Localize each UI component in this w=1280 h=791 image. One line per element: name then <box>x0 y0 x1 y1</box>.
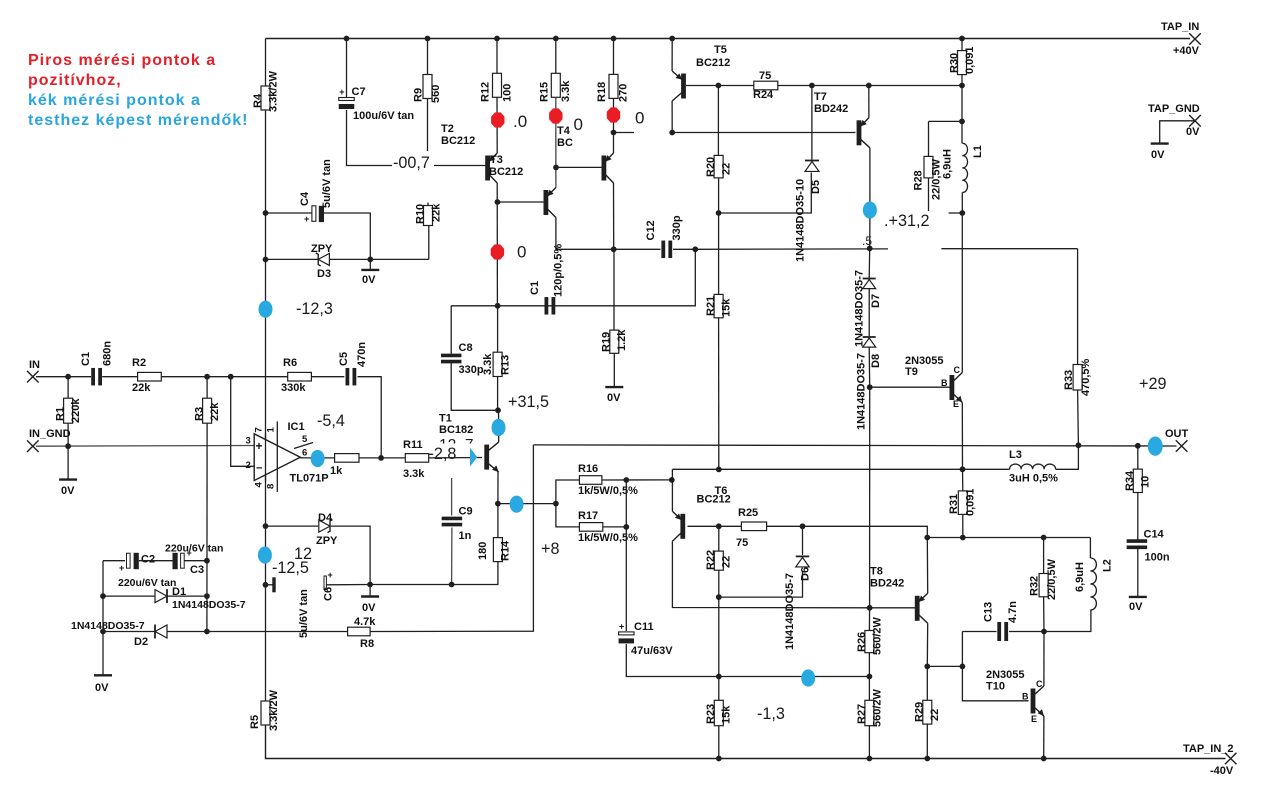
node D4 junction <box>263 523 269 529</box>
wire IN row <box>36 376 91 378</box>
resistor 1k <box>330 454 359 477</box>
wire R12 top <box>496 39 498 74</box>
svg-text:T1: T1 <box>439 413 452 425</box>
wire C13 to junction <box>1009 631 1044 633</box>
svg-text:BC212: BC212 <box>441 135 475 147</box>
svg-text:-2,8: -2,8 <box>429 445 457 463</box>
svg-text:C3: C3 <box>190 564 204 576</box>
capacitor C14 <box>1127 529 1170 564</box>
resistor R34 <box>1124 469 1152 492</box>
wire R31 top link <box>962 469 964 491</box>
resistor R10 <box>415 203 443 226</box>
node T9 base junction <box>867 384 873 390</box>
svg-text:C1: C1 <box>529 281 541 295</box>
svg-text:D8: D8 <box>870 354 882 368</box>
node R21 bottom junction <box>716 467 722 473</box>
svg-text:BC212: BC212 <box>697 494 731 506</box>
svg-text:C5: C5 <box>338 352 350 366</box>
svg-text:6,9uH: 6,9uH <box>942 149 954 179</box>
measure blue point opamp out <box>311 450 325 467</box>
ground D3 0V <box>361 270 379 286</box>
wire R21 bottom <box>718 318 720 470</box>
svg-text:1k/5W/0,5%: 1k/5W/0,5% <box>578 485 638 497</box>
measure blue point -12,3 <box>259 301 273 318</box>
transistor T9 2N3055 (NPN) <box>905 355 962 409</box>
op-amp IC1 TL071P <box>246 421 329 484</box>
svg-text:220u/6V tan: 220u/6V tan <box>118 577 176 589</box>
svg-text:D4: D4 <box>318 512 333 524</box>
wire R14 top link <box>497 504 499 538</box>
wire R6 to C5 <box>311 376 344 378</box>
svg-text:R32: R32 <box>1029 576 1041 596</box>
wire T3 collector down <box>496 183 498 306</box>
node C6 gnd junction <box>367 582 373 588</box>
svg-text:T7: T7 <box>814 91 827 103</box>
svg-text:10: 10 <box>1140 476 1152 488</box>
wire D1 row <box>103 595 207 597</box>
svg-text:3.3k/2W: 3.3k/2W <box>268 689 280 731</box>
wire D2 row <box>103 631 348 633</box>
diode D5 <box>795 161 823 263</box>
svg-text:E: E <box>1031 714 1037 724</box>
wire 537 row <box>927 537 1090 539</box>
svg-text:C1: C1 <box>80 352 92 366</box>
svg-text:+: + <box>619 621 624 631</box>
terminal IN_GND <box>27 428 71 452</box>
svg-text:+: + <box>119 563 124 573</box>
svg-text:IC1: IC1 <box>288 421 305 433</box>
svg-text:75: 75 <box>759 70 771 82</box>
wire R12 to T3 emitter <box>496 97 498 153</box>
wire bottom -40V rail <box>266 725 1226 759</box>
wire R30 top <box>961 39 963 51</box>
wire R19 bottom <box>613 353 615 387</box>
svg-text:C7: C7 <box>352 86 366 98</box>
svg-text:BC: BC <box>557 137 573 149</box>
wire C2-C3 link <box>139 560 173 562</box>
diode D3 ZPY <box>311 243 333 280</box>
wire D7 link top <box>868 248 871 277</box>
svg-text:+40V: +40V <box>1173 45 1200 57</box>
svg-text:+: + <box>304 214 309 224</box>
node R17 bracket junction <box>623 524 629 530</box>
svg-text:T4: T4 <box>557 125 571 137</box>
label voltage +8 <box>541 540 559 558</box>
diode D8 <box>856 337 883 430</box>
wire T2 collector to C12 row <box>556 218 614 250</box>
svg-text:1.2k: 1.2k <box>616 329 628 351</box>
label voltage 0 near T4 <box>574 115 583 134</box>
svg-text:15k: 15k <box>721 705 733 724</box>
svg-text:R26: R26 <box>856 632 868 652</box>
svg-text:3.3k: 3.3k <box>560 80 572 102</box>
resistor R1 <box>55 398 83 424</box>
svg-text:C12: C12 <box>645 220 657 240</box>
svg-text:R19: R19 <box>601 332 613 352</box>
svg-text:C: C <box>954 365 961 375</box>
capacitor C3 <box>165 543 223 577</box>
svg-text:220k: 220k <box>70 398 82 423</box>
resistor R32 <box>1029 558 1059 600</box>
svg-text:T9: T9 <box>905 366 918 378</box>
svg-text:D5: D5 <box>810 180 822 194</box>
capacitor C5 <box>338 342 368 386</box>
wire C4 left <box>266 212 312 214</box>
wire R28 bottom <box>929 178 966 216</box>
wire stub right of R18 <box>614 132 635 134</box>
ground C6 0V <box>361 597 379 615</box>
resistor R31 <box>948 488 977 516</box>
wire T8 collector row <box>927 665 962 667</box>
wire R1 to ground <box>67 446 69 479</box>
wire bracket to C11 <box>625 480 627 631</box>
svg-text:C9: C9 <box>459 506 473 518</box>
svg-text:TAP_GND: TAP_GND <box>1148 103 1200 115</box>
wire D6 top link <box>802 526 804 555</box>
wire C2 left vertical <box>102 561 104 676</box>
ground IN 0V <box>59 480 77 497</box>
wire D3 gnd stub <box>369 259 371 270</box>
wire R8 to x533 <box>370 445 533 632</box>
wire R15 to T2 emitter <box>555 97 557 187</box>
wire C12 to junction <box>673 248 695 250</box>
svg-text:470n: 470n <box>356 342 368 367</box>
label voltage -12,3 <box>296 300 333 318</box>
svg-text:1k/5W/0,5%: 1k/5W/0,5% <box>578 532 638 544</box>
wire C11 bottom <box>626 644 719 676</box>
wire T6 collector down <box>672 541 869 608</box>
wire T1 emitter down <box>497 472 499 504</box>
svg-text:−: − <box>256 463 262 475</box>
wire R32 top link <box>1043 538 1045 574</box>
node C4 junction <box>263 210 269 216</box>
capacitor C12 <box>645 215 683 258</box>
wire R13 bottom <box>497 377 499 411</box>
svg-text:B: B <box>941 378 948 388</box>
label voltage .0 <box>513 112 527 131</box>
svg-text:.5: .5 <box>862 234 872 248</box>
svg-text:R3: R3 <box>194 407 206 421</box>
svg-text:560/2W: 560/2W <box>872 616 884 655</box>
resistor R22 <box>705 550 733 570</box>
svg-text:22: 22 <box>721 556 733 568</box>
svg-text:22k: 22k <box>209 402 221 421</box>
measure blue triangle T1 base <box>470 448 477 467</box>
wire C14 bottom <box>1137 549 1139 597</box>
wire C8 to node <box>451 362 498 410</box>
wire L2 top link <box>1089 538 1091 559</box>
svg-text:22: 22 <box>929 709 941 721</box>
svg-text:T10: T10 <box>986 681 1005 693</box>
wire D5 top link <box>811 86 813 160</box>
wire left main vertical middle <box>265 110 267 526</box>
capacitor C9 <box>442 506 473 543</box>
svg-text:1N4148DO35-10: 1N4148DO35-10 <box>795 179 807 262</box>
svg-text:R13: R13 <box>500 355 512 375</box>
node C3 junction <box>204 558 210 564</box>
svg-text:4: 4 <box>254 482 265 488</box>
svg-text:5u/6V tan: 5u/6V tan <box>321 159 333 208</box>
resistor R25 <box>719 507 767 549</box>
wire ZPY D3 row <box>266 258 429 260</box>
label voltage 12 fragment <box>294 545 312 563</box>
wire R27 bottom <box>868 726 870 759</box>
svg-text:-12,5: -12,5 <box>272 559 309 577</box>
wire IC1 pin5 stub <box>294 443 313 449</box>
svg-text:0V: 0V <box>607 392 621 404</box>
wire T2 base line <box>497 201 543 203</box>
wire T5 base to R24 line <box>686 85 962 87</box>
svg-text:R27: R27 <box>856 704 868 724</box>
resistor R15 <box>539 73 573 102</box>
node C6 junction <box>263 582 269 588</box>
resistor R16 <box>578 463 638 497</box>
svg-text:R10: R10 <box>415 204 427 224</box>
resistor R26 <box>856 616 884 655</box>
wire IC1 pin8 label <box>266 484 277 489</box>
measure blue point -12,5 <box>258 547 272 564</box>
svg-text:75: 75 <box>736 537 748 549</box>
svg-text:4.7n: 4.7n <box>1007 601 1019 623</box>
node R30/L1 junctions <box>959 119 965 125</box>
node R32 top junction <box>1041 535 1047 541</box>
svg-text:7: 7 <box>254 427 265 432</box>
label voltage 0 at R18 <box>635 109 644 128</box>
svg-text:1N4148DO35-7: 1N4148DO35-7 <box>172 599 246 611</box>
node R16 bracket junction <box>623 477 629 483</box>
svg-text:BC212: BC212 <box>489 166 523 178</box>
svg-text:8: 8 <box>266 484 277 489</box>
svg-text:R29: R29 <box>914 702 926 722</box>
wire C9 bottom <box>451 528 453 585</box>
node R16 row to T6 emitter <box>669 477 675 483</box>
node T8 emitter top junction <box>924 535 930 541</box>
wire inverting input feedback <box>231 377 255 467</box>
wire left main vertical lower <box>265 526 267 701</box>
capacitor C8 <box>441 342 484 376</box>
wire C13 row left <box>962 631 996 633</box>
transistor T2 BC212 (PNP) <box>441 123 556 218</box>
svg-text:0V: 0V <box>1151 149 1165 161</box>
wire C13 row right <box>1044 610 1091 632</box>
wire D6 bottom link <box>719 571 803 598</box>
resistor R6 <box>281 357 311 394</box>
svg-text:1N4148DO35-7: 1N4148DO35-7 <box>784 573 796 650</box>
svg-text:0V: 0V <box>95 682 109 694</box>
svg-text:R6: R6 <box>283 357 297 369</box>
svg-text:pozitívhoz,: pozitívhoz, <box>28 72 122 89</box>
svg-text:D2: D2 <box>134 636 148 648</box>
wire 1k to R11 <box>359 457 405 459</box>
wire x962 vertical <box>962 632 1028 701</box>
svg-text:47u/63V: 47u/63V <box>631 645 673 657</box>
wire L3 right up <box>1056 445 1079 469</box>
wire IC1 output <box>300 457 334 459</box>
wire D7-D8 link <box>868 289 870 337</box>
terminal TAP_IN_2 <box>1183 743 1237 777</box>
node D6 top junction <box>800 523 806 529</box>
capacitor C4 <box>299 159 333 224</box>
transistor T3 BC212 (PNP) <box>485 153 523 183</box>
ground TAP_GND 0V <box>1151 144 1169 161</box>
svg-text:560: 560 <box>430 85 442 103</box>
svg-text:6: 6 <box>302 448 307 459</box>
svg-text:560/2W: 560/2W <box>872 688 884 727</box>
svg-text:0: 0 <box>574 115 583 134</box>
svg-text:330p: 330p <box>671 215 683 240</box>
label voltage 0 at T3 collector <box>517 243 526 262</box>
svg-text:15k: 15k <box>721 298 733 317</box>
wire R3 top link <box>206 377 208 399</box>
label voltage -12,5 <box>272 559 309 577</box>
svg-text:R4: R4 <box>252 93 264 108</box>
wire T6 base <box>688 525 719 527</box>
svg-text:.+31,2: .+31,2 <box>884 212 929 230</box>
wire -1,3 row <box>719 676 870 678</box>
wire OUT row <box>533 445 1176 446</box>
wire D4 row <box>266 525 319 527</box>
inductor L3 <box>1009 449 1058 485</box>
svg-text:+29: +29 <box>1139 375 1166 393</box>
svg-text:kék mérési pontok a: kék mérési pontok a <box>28 92 201 109</box>
transistor T1 BC182 (NPN) <box>439 413 499 473</box>
node R24 line junctions <box>716 83 965 89</box>
svg-text:+31,5: +31,5 <box>508 393 549 411</box>
measure red point R12 <box>491 112 504 127</box>
svg-text:+: + <box>339 87 344 97</box>
wire R20 bottom to D5 node <box>718 178 720 213</box>
svg-text:R15: R15 <box>539 82 551 102</box>
wire R16 right <box>602 479 672 481</box>
wire D8 to T9 base node <box>868 347 871 387</box>
measure red point R15 <box>549 108 562 123</box>
terminal TAP_IN <box>1161 21 1201 57</box>
svg-text:R17: R17 <box>578 510 598 522</box>
svg-text:0V: 0V <box>362 274 376 286</box>
wire D8 node down to T8 base node <box>869 387 871 608</box>
svg-text:R1: R1 <box>55 407 67 421</box>
terminal TAP_GND <box>1148 103 1201 144</box>
svg-text:C13: C13 <box>983 602 995 622</box>
svg-text:22k: 22k <box>132 382 151 394</box>
ground C14 0V <box>1129 597 1147 613</box>
diode D7 <box>854 270 883 347</box>
terminal IN <box>27 359 40 383</box>
wire R11 to T1 base <box>429 457 482 459</box>
wire C2 row left <box>103 560 125 562</box>
wire C7 branch from rail <box>346 39 348 98</box>
wire R17 left bracket <box>556 504 580 527</box>
svg-text:+8: +8 <box>541 540 559 558</box>
wire R33 bottom <box>1077 390 1080 445</box>
wire R10 link <box>428 226 430 260</box>
svg-text:R5: R5 <box>249 715 261 729</box>
diode D2 <box>71 620 167 648</box>
svg-text:-12,3: -12,3 <box>296 300 333 318</box>
capacitor C1 680n input <box>80 341 114 386</box>
capacitor C2 <box>118 553 176 589</box>
svg-text:5u/6V tan: 5u/6V tan <box>298 589 310 638</box>
resistor R13 <box>482 306 512 377</box>
wire T8 collector down <box>926 623 928 666</box>
measure blue point T1 collector <box>492 419 506 436</box>
wire C4 right <box>324 213 370 259</box>
svg-text:C14: C14 <box>1144 529 1165 541</box>
svg-text:C4: C4 <box>299 191 311 206</box>
node R31 bottom junction <box>960 535 966 541</box>
resistor R30 <box>949 46 977 74</box>
wire top +40V rail <box>266 38 1191 40</box>
wire T7 collector to junction <box>869 219 871 249</box>
svg-text:T5: T5 <box>714 44 727 56</box>
svg-text:C11: C11 <box>634 621 654 633</box>
svg-text:R20: R20 <box>705 157 717 177</box>
svg-text:T2: T2 <box>441 123 454 135</box>
svg-text:Piros mérési pontok a: Piros mérési pontok a <box>28 52 216 69</box>
svg-text:L3: L3 <box>1009 449 1022 461</box>
node T10 drive junction <box>960 664 966 670</box>
label voltage -1,3 <box>757 705 785 723</box>
node D3 ground junction <box>367 257 373 263</box>
svg-text:1N4148DO35-7: 1N4148DO35-7 <box>856 353 868 430</box>
wire R16 left bracket <box>556 480 580 504</box>
svg-text:L1: L1 <box>972 145 984 158</box>
resistor R24 <box>753 70 778 101</box>
wire T7 collector down <box>869 148 871 210</box>
wire C1 to R2 <box>102 376 137 378</box>
wire 249 row right <box>941 248 1077 250</box>
wire D4 to gnd node <box>331 526 370 584</box>
svg-text:1N4148DO35-7: 1N4148DO35-7 <box>854 270 866 347</box>
resistor R4 <box>252 70 280 112</box>
resistor R23 <box>705 700 733 725</box>
wire R17 right <box>603 526 627 528</box>
svg-text:B: B <box>1022 692 1029 702</box>
node T8 collector junction <box>924 664 930 670</box>
node T9 emitter junction <box>960 466 966 472</box>
wire R22 bottom link <box>718 570 720 597</box>
svg-text:4.7k: 4.7k <box>354 616 376 628</box>
resistor R17 <box>578 510 638 544</box>
svg-text:R8: R8 <box>360 638 374 650</box>
wire R26 top link <box>868 608 870 631</box>
node D1 left junction <box>100 593 106 599</box>
node T3 collector to T2 base <box>495 199 501 205</box>
node R1 bottom junction <box>65 443 71 449</box>
svg-text:ZPY: ZPY <box>311 243 333 255</box>
svg-text:R21: R21 <box>705 296 717 316</box>
node T4 base junction <box>553 165 559 171</box>
svg-text:+: + <box>256 439 263 453</box>
svg-text:0V: 0V <box>1186 126 1200 138</box>
wire R23 bottom <box>718 726 720 759</box>
wire R3 bottom long <box>206 423 208 631</box>
node top rail junction dots <box>344 36 965 42</box>
wire C5 to output node <box>358 377 382 458</box>
label voltage 12,7 fragment <box>439 437 473 454</box>
svg-text:R14: R14 <box>500 540 512 561</box>
svg-text:R33: R33 <box>1063 370 1075 390</box>
wire D5 bottom link <box>719 173 812 214</box>
diode D1 <box>155 586 246 611</box>
svg-text:0,091: 0,091 <box>964 46 976 74</box>
label voltage -00,7 <box>392 153 434 172</box>
label voltage +31,2 <box>884 211 950 231</box>
wire gnd node to C9 node <box>370 584 452 586</box>
svg-text:L2: L2 <box>1102 559 1114 572</box>
svg-text:IN_GND: IN_GND <box>29 428 71 440</box>
svg-text:-00,7: -00,7 <box>393 154 430 172</box>
